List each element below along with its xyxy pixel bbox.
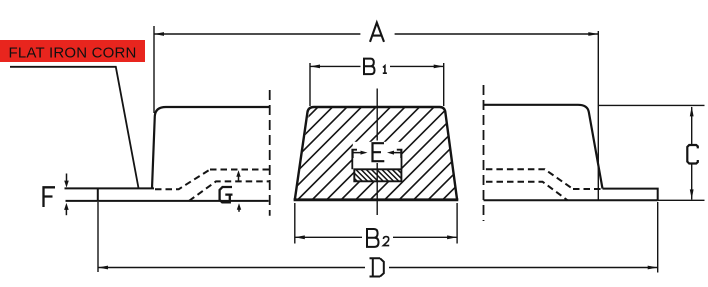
dim C line <box>691 107 693 200</box>
dim C label <box>687 145 698 164</box>
dim F top arrow <box>66 174 68 182</box>
dim A label <box>370 23 384 42</box>
dim B2 extension lines <box>295 203 457 244</box>
centerline <box>376 89 378 216</box>
section trapezoid outline <box>295 107 457 200</box>
dim G bottom arrow <box>238 209 240 212</box>
svg-text:FLAT IRON CORN: FLAT IRON CORN <box>9 45 137 62</box>
dim D extension lines <box>98 202 658 273</box>
cavity edges <box>352 150 401 170</box>
dim B2 label <box>366 229 379 247</box>
right hidden flange edge (dashed) <box>573 188 603 190</box>
insert bar outline <box>354 169 401 181</box>
left view hump outline <box>152 107 270 188</box>
dim A extension lines <box>154 26 598 200</box>
dim G label <box>220 187 233 202</box>
dim B2 arrows <box>295 235 305 239</box>
right view hump outline <box>484 105 603 189</box>
dim B1 arrows <box>310 65 320 69</box>
dim B2 line <box>295 236 457 238</box>
callout red box FLAT IRON CORN <box>0 40 145 62</box>
dim E right arrow <box>393 150 401 159</box>
dim B1 line <box>310 65 444 67</box>
cavity white zone <box>353 142 401 170</box>
insert bar hatching <box>345 169 410 182</box>
right hidden insert bottom (dashed) <box>486 182 568 201</box>
dim C extension lines <box>598 105 704 200</box>
right hidden insert top (dashed) <box>486 169 573 189</box>
dim D arrows <box>98 266 108 270</box>
dim A arrows <box>154 32 164 36</box>
section body hatching <box>210 106 552 201</box>
dim G top arrow <box>238 176 240 181</box>
dim C arrows <box>690 106 694 116</box>
leader line from callout to left flange <box>10 67 139 188</box>
dim E label <box>373 143 385 161</box>
dim F label <box>44 187 56 207</box>
dim A line <box>154 33 598 35</box>
left hidden insert bottom (dashed) <box>189 181 270 201</box>
left break line (dashed) <box>269 90 271 216</box>
dim D line <box>98 267 658 269</box>
dim E left arrow <box>353 150 361 159</box>
dim B1 extension lines <box>310 63 444 106</box>
dim F bottom arrow <box>65 209 67 215</box>
dim B1 label <box>363 58 375 74</box>
left view flange outline <box>65 188 269 201</box>
left hidden insert top (dashed) <box>210 169 270 171</box>
dim D label <box>370 258 384 276</box>
right view break line (dashed) <box>483 85 485 221</box>
left hidden flange edge (dashed) <box>155 170 210 190</box>
right view flange outline <box>484 189 658 201</box>
